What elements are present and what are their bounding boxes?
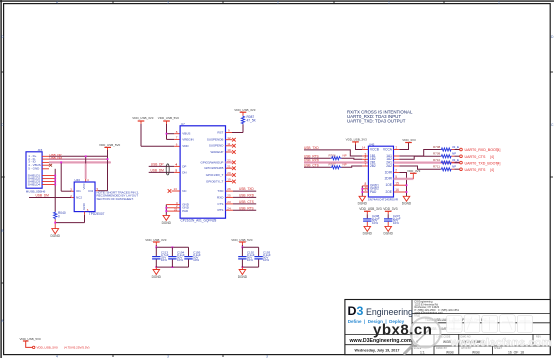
capacitor C213 [152, 247, 169, 267]
svg-text:IO2: IO2 [88, 189, 93, 193]
svg-text:R707: R707 [329, 163, 337, 167]
svg-text:VDD_USB_5V0: VDD_USB_5V0 [99, 143, 121, 147]
svg-text:VCC: VCC [82, 182, 86, 189]
svg-text:WGB: WGB [443, 340, 451, 344]
svg-text:7: 7 [365, 162, 367, 166]
svg-text:5 - GND: 5 - GND [28, 167, 40, 171]
cap group2 rails [242, 246, 258, 248]
power VDD_USB_5V0 (cap group 2) [231, 238, 253, 246]
capacitor C208 with power and ground [359, 207, 382, 236]
svg-text:2OE: 2OE [386, 190, 392, 194]
svg-text:2B2: 2B2 [370, 164, 376, 168]
svg-text:USB_RTS: USB_RTS [239, 206, 254, 210]
svg-text:10%: 10% [247, 258, 253, 262]
svg-text:VDD: VDD [182, 144, 189, 148]
svg-text:DGND: DGND [384, 232, 394, 236]
node junction [54, 222, 56, 224]
svg-text:UART0_RXD_BOOT: UART0_RXD_BOOT [465, 148, 499, 152]
ground DGND (U7) [162, 215, 172, 224]
svg-text:VCCA: VCCA [383, 147, 393, 151]
translator gnd pins [362, 186, 368, 192]
svg-text:3: 3 [167, 0, 169, 4]
svg-text:22: 22 [227, 159, 231, 163]
svg-text:www.D3Engineering.com: www.D3Engineering.com [349, 338, 412, 344]
svg-text:47_5K: 47_5K [247, 119, 257, 123]
RST pullup wire [226, 132, 233, 134]
svg-text:10%: 10% [393, 221, 399, 225]
svg-text:GPIO0/TX_T: GPIO0/TX_T [206, 179, 224, 183]
zone tick right [550, 71, 553, 73]
svg-text:2DIR: 2DIR [385, 177, 393, 181]
net labels USB_TXD/RXD/CTS/RTS [239, 187, 255, 210]
svg-text:33_E: 33_E [452, 145, 459, 149]
svg-text:3: 3 [266, 355, 268, 358]
ground DGND (group1) [152, 270, 162, 279]
svg-text:USB_DP: USB_DP [151, 163, 164, 167]
U7 ground pins [166, 205, 180, 212]
svg-text:D3: D3 [348, 304, 364, 318]
svg-text:IO1: IO1 [76, 189, 81, 193]
capacitor C194 [168, 247, 185, 267]
wire DP [149, 165, 175, 167]
svg-text:23: 23 [227, 200, 231, 204]
svg-text:[4]: [4] [497, 148, 501, 152]
power VDD_3V3 (VCCA) [394, 138, 416, 149]
svg-text:1OE: 1OE [386, 183, 392, 187]
svg-text:[4]: [4] [497, 161, 501, 165]
WATERMARKS [373, 315, 552, 354]
svg-text:DGND: DGND [363, 232, 373, 236]
svg-text:DGND: DGND [51, 234, 61, 238]
svg-text:10%: 10% [161, 258, 167, 262]
svg-text:10%: 10% [372, 221, 378, 225]
resistor R711 [433, 165, 460, 171]
svg-text:DP: DP [182, 164, 186, 168]
level translator U45 [365, 142, 399, 201]
svg-text:UART0_TXD: TDA3 OUTPUT: UART0_TXD: TDA3 OUTPUT [347, 118, 406, 123]
capacitor C192 [238, 247, 255, 267]
TITLE BLOCK [345, 300, 550, 355]
svg-text:NP: NP [452, 152, 456, 156]
off-page UART0_RXD_BOOT [460, 148, 463, 151]
node junction [60, 162, 62, 164]
off-page UART0_CTS [460, 155, 463, 158]
svg-text:WGB: WGB [472, 350, 480, 354]
zone tick bottom [112, 355, 114, 357]
svg-text:DGND: DGND [402, 202, 412, 206]
wire 2A1 out (highlighted) [394, 162, 460, 164]
svg-text:VBUS: VBUS [182, 132, 190, 136]
svg-text:10%: 10% [177, 258, 183, 262]
svg-text:1: 1 [498, 0, 500, 4]
svg-text:R709: R709 [433, 152, 441, 156]
power VDD_USB_3V3 (cap group 1) [145, 238, 167, 246]
power VDD_USB_5V0 (upper) [99, 143, 121, 152]
svg-text:VDD_USB_3V3: VDD_USB_3V3 [234, 108, 256, 112]
svg-text:1: 1 [395, 146, 397, 150]
svg-text:TPD2E007: TPD2E007 [89, 212, 105, 216]
svg-text:24: 24 [227, 206, 231, 210]
svg-text:VDD_USB_5V0: VDD_USB_5V0 [20, 337, 42, 341]
svg-text:PAD: PAD [182, 209, 189, 213]
power VDD_USB_5V0 (above U7) [158, 116, 180, 125]
wire USB_DM to U46 pin2 [29, 197, 71, 199]
svg-text:CP2102N_A01_GQFN28: CP2102N_A01_GQFN28 [181, 219, 217, 223]
node junction [85, 155, 87, 157]
wire 1A2 out [394, 156, 441, 159]
node junction [107, 158, 109, 160]
note text [347, 110, 413, 124]
svg-text:USB_DM: USB_DM [36, 194, 50, 198]
svg-text:14: 14 [362, 146, 366, 150]
svg-text:GPIO2/RS485: GPIO2/RS485 [204, 166, 224, 170]
wire VBUS horizontal [49, 155, 108, 157]
svg-text:TXD: TXD [217, 189, 224, 193]
resistor R708 [433, 145, 460, 151]
svg-text:VDD_USB_5V0: VDD_USB_5V0 [231, 238, 253, 242]
power VDD_USB_3V3 (above U7) [132, 116, 154, 125]
svg-text:R706: R706 [329, 153, 337, 157]
svg-text:VREGIN: VREGIN [182, 137, 194, 141]
svg-text:SHIELD4: SHIELD4 [28, 182, 41, 186]
resistor R040 [54, 211, 66, 220]
svg-text:VDD_3V3: VDD_3V3 [407, 169, 421, 173]
power VDD_USB_3V3 (R087) [234, 108, 256, 112]
svg-text:NP: NP [343, 153, 347, 157]
power VDD_USB_3V3 (VCCB) [346, 138, 368, 145]
svg-text:U46: U46 [75, 178, 81, 182]
wire vertical to U46 VCC [85, 156, 87, 179]
wire vertical to U46 IO2 [107, 150, 109, 191]
svg-text:1: 1 [388, 0, 390, 4]
svg-text:RTS: RTS [217, 208, 223, 212]
svg-text:5: 5 [395, 175, 397, 179]
cap group1 rails [156, 246, 188, 248]
off-page UART0_TXD_BOOT [460, 161, 463, 164]
svg-text:4: 4 [56, 354, 58, 358]
zone tick top [112, 1, 114, 4]
svg-text:10%: 10% [263, 258, 269, 262]
address block [415, 300, 460, 315]
svg-text:10%: 10% [193, 258, 199, 262]
wire USB_TXD [304, 146, 368, 156]
svg-text:VDD_USB_5V0: VDD_USB_5V0 [37, 346, 59, 350]
svg-text:16 OF 18: 16 OF 18 [508, 350, 524, 354]
svg-text:[4]: [4] [490, 155, 494, 159]
svg-text:20: 20 [227, 171, 231, 175]
svg-text:33_E: 33_E [452, 158, 459, 162]
svg-text:USB_DM: USB_DM [50, 156, 63, 160]
resistor R087 [241, 115, 256, 124]
svg-text:RST: RST [217, 130, 223, 134]
wire to VDD pin [140, 124, 142, 146]
wire USB_CTS + resistor R707 [304, 163, 368, 169]
svg-text:1DIR: 1DIR [385, 170, 393, 174]
svg-text:VDD_USB_3V3: VDD_USB_3V3 [145, 238, 167, 242]
svg-text:0: 0 [58, 215, 60, 219]
svg-text:UART0_CTS: UART0_CTS [465, 155, 487, 159]
no-connect pins right side [226, 140, 233, 182]
wire D+ horizontal (highlighted) [49, 161, 111, 163]
oe pin stubs [394, 184, 407, 186]
svg-text:NC2: NC2 [76, 195, 82, 199]
svg-text:WAKEUP: WAKEUP [211, 150, 224, 154]
connector pin stubs [42, 156, 55, 184]
svg-text:Engineering: Engineering [366, 307, 413, 317]
svg-text:GPIO3/WAKEUP: GPIO3/WAKEUP [200, 160, 223, 164]
svg-text:11: 11 [227, 142, 230, 146]
svg-text:PAD: PAD [370, 190, 377, 194]
ground DGND (dir/oe) [402, 196, 412, 205]
svg-text:TITLE: TITLE [414, 315, 421, 318]
wire USB_RXD (highlighted) [304, 159, 368, 163]
sheet outer border [0, 0, 554, 2]
svg-text:CTS: CTS [217, 202, 223, 206]
wire to VBUS / VREGIN [166, 124, 168, 139]
svg-text:[4]: [4] [490, 168, 494, 172]
svg-text:J15: J15 [38, 148, 43, 152]
svg-text:1:1: 1:1 [420, 350, 425, 354]
U46 note text [97, 190, 140, 201]
wire [26, 341, 33, 347]
svg-text:USB_DM: USB_DM [151, 168, 165, 172]
svg-text:www.elecfans.com: www.elecfans.com [450, 337, 552, 349]
off-page connector circle [33, 346, 35, 348]
svg-text:SUSPENDB: SUSPENDB [207, 138, 224, 142]
svg-text:2A2: 2A2 [386, 164, 392, 168]
svg-text:R711: R711 [433, 165, 440, 169]
wire 2A2 out [394, 166, 441, 169]
svg-text:WGB: WGB [446, 350, 454, 354]
svg-text:ybx8.cn: ybx8.cn [373, 321, 432, 338]
zone tick left [1, 71, 4, 73]
svg-text:R708: R708 [433, 145, 441, 149]
svg-text:UART0_TXD_BOOT: UART0_TXD_BOOT [465, 161, 499, 165]
diff pair ellipse marker [166, 164, 169, 175]
wire vertical to U46 IO1 [60, 162, 62, 191]
svg-text:VDD_USB_5V0: VDD_USB_5V0 [158, 116, 180, 120]
svg-text:(4.75V/5.25V/5.5V): (4.75V/5.25V/5.5V) [64, 346, 90, 350]
svg-text:26: 26 [227, 187, 231, 191]
wire 1A1 out [394, 150, 441, 157]
capacitor C193 [254, 247, 270, 267]
svg-text:U7: U7 [181, 122, 185, 126]
svg-text:VCCB: VCCB [370, 147, 379, 151]
svg-text:VDD_USB_3V3: VDD_USB_3V3 [132, 116, 154, 120]
svg-text:10: 10 [227, 148, 231, 152]
off-page UART0_RTS [460, 168, 463, 171]
svg-text:DGND: DGND [358, 202, 368, 206]
ground DGND (left) [51, 229, 61, 239]
svg-text:GND: GND [82, 202, 86, 210]
svg-text:19: 19 [227, 178, 231, 182]
resistor R710 [433, 158, 460, 164]
svg-text:DGND: DGND [238, 275, 248, 279]
U46 ground pin wire [84, 212, 86, 215]
svg-text:15: 15 [395, 181, 399, 185]
capacitor C207 with power and ground [383, 207, 400, 236]
svg-text:VDD_USB_3V3: VDD_USB_3V3 [346, 138, 368, 142]
wire D- horizontal [49, 158, 108, 160]
ground DGND (translator) [358, 196, 368, 205]
no-connect pin4 [49, 164, 52, 167]
svg-text:SECTION OF DATASHEET.: SECTION OF DATASHEET. [97, 197, 134, 201]
svg-text:VDD_3V3: VDD_3V3 [402, 138, 416, 142]
svg-text:NP: NP [343, 163, 347, 167]
svg-text:16: 16 [395, 188, 399, 192]
resistor R709 [433, 152, 460, 158]
svg-text:VDD_USB_3V3: VDD_USB_3V3 [359, 207, 382, 211]
usb bridge U7 [174, 122, 226, 223]
svg-text:USB_TXD: USB_TXD [239, 187, 254, 191]
wire 1DIR to gnd rail [394, 169, 407, 197]
svg-text:DN: DN [182, 170, 186, 174]
svg-text:U45: U45 [369, 142, 375, 146]
svg-text:R710: R710 [433, 158, 441, 162]
svg-text:USB_RXD: USB_RXD [239, 194, 255, 198]
shield bus wire [54, 169, 56, 212]
ground DGND (group2) [238, 270, 248, 279]
svg-text:NP: NP [452, 165, 456, 169]
svg-text:VDD_3V3: VDD_3V3 [383, 207, 397, 211]
elecfans white watermark [447, 315, 552, 349]
svg-text:UART0_RTS: UART0_RTS [465, 168, 486, 172]
svg-text:2: 2 [277, 0, 279, 4]
node junction [166, 133, 168, 135]
esd diode U46 [70, 178, 104, 216]
svg-text:SUSPEND: SUSPEND [209, 144, 224, 148]
svg-text:DGND: DGND [162, 221, 172, 225]
svg-text:GPIO1/RX_T: GPIO1/RX_T [206, 173, 224, 177]
svg-text:4: 4 [56, 0, 58, 4]
connector J15 [26, 148, 46, 193]
svg-text:DGND: DGND [152, 275, 162, 279]
wire USB_RTS + resistor R706 [304, 153, 368, 159]
wire DN [149, 171, 175, 173]
svg-text:USB_CTS: USB_CTS [239, 200, 254, 204]
svg-text:21: 21 [227, 164, 231, 168]
UART data wires [226, 191, 257, 210]
svg-text:12: 12 [227, 136, 231, 140]
power VDD_3V3 (2DIR) [394, 169, 421, 179]
svg-text:3: 3 [167, 354, 169, 358]
svg-text:2: 2 [395, 169, 397, 173]
magnifier glass [405, 318, 441, 354]
NC pin no-connect X [172, 190, 181, 192]
svg-text:25: 25 [227, 194, 231, 198]
svg-text:SN74AVC4T245RSVR: SN74AVC4T245RSVR [368, 198, 399, 202]
svg-text:RXD: RXD [217, 195, 224, 199]
capacitor C195 [184, 247, 201, 267]
svg-text:Wednesday, July 19, 2017: Wednesday, July 19, 2017 [355, 349, 400, 353]
